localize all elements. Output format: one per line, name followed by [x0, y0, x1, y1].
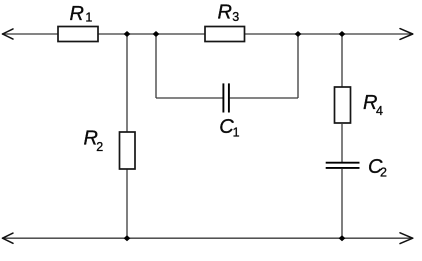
svg-text:2: 2 [380, 166, 387, 180]
node junction dot top C [295, 31, 302, 37]
label R4 [363, 92, 383, 118]
svg-text:1: 1 [85, 11, 92, 25]
wire C1 branch horizontal right [230, 97, 298, 99]
node junction dot bottom B [339, 235, 346, 241]
label R3 [218, 2, 240, 24]
resistor R1 [58, 27, 98, 42]
wire C2 to bottom rail [341, 169, 343, 238]
label C1 [219, 116, 239, 140]
wire C1 branch horizontal left [156, 97, 223, 99]
node arrow top-left [3, 29, 14, 39]
capacitor C2 [326, 163, 360, 168]
capacitor C1 [223, 83, 229, 112]
node arrow bottom-right [400, 233, 413, 244]
label R1 [70, 3, 93, 25]
wire C1 branch left vertical [155, 34, 157, 98]
wire R4 branch vertical top [341, 34, 343, 87]
node junction dot top A [124, 31, 131, 37]
svg-text:R: R [218, 2, 232, 24]
label R2 [84, 128, 104, 154]
wire R4 to C2 [341, 123, 343, 162]
resistor R4 [335, 87, 351, 123]
svg-text:R: R [70, 3, 84, 25]
node arrow top-right [400, 29, 413, 40]
label C2 [368, 156, 387, 180]
node junction dot bottom A [124, 235, 131, 241]
node junction dot top D [339, 31, 346, 37]
wire top rail [3, 33, 413, 35]
wire C1 branch right vertical [297, 34, 299, 98]
node arrow bottom-left [3, 233, 14, 243]
node junction dot top B [153, 31, 160, 37]
resistor R3 [205, 27, 245, 42]
svg-text:3: 3 [232, 10, 239, 24]
wire R2 branch vertical [126, 34, 128, 238]
svg-text:2: 2 [96, 140, 103, 154]
resistor R2 [120, 132, 136, 169]
wire bottom rail [3, 237, 413, 239]
svg-text:1: 1 [233, 126, 240, 140]
svg-text:4: 4 [376, 104, 383, 118]
